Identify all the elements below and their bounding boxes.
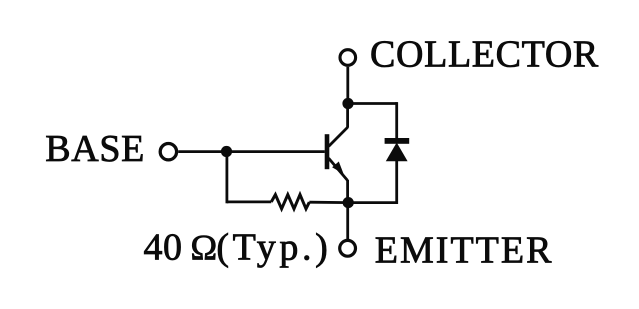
junction base node <box>221 146 232 157</box>
transistor Q1 <box>325 127 348 180</box>
wire resistor branch vertical <box>225 152 228 204</box>
wire collector terminal to node <box>346 67 349 104</box>
svg-text:40 Ω(Typ.): 40 Ω(Typ.) <box>144 227 332 269</box>
wire resistor branch horizontal <box>227 200 271 203</box>
junction collector node <box>342 98 353 109</box>
wire transistor emitter vertical <box>346 180 349 203</box>
wire emitter node to diode branch <box>348 201 397 204</box>
wire diode branch lower <box>395 160 398 204</box>
wire transistor collector vertical <box>346 104 349 128</box>
diode D1 <box>385 138 410 161</box>
wire collector node to diode branch <box>348 102 397 105</box>
terminal BASE <box>160 144 176 160</box>
terminal EMITTER <box>340 240 356 256</box>
svg-text:COLLECTOR: COLLECTOR <box>370 34 599 76</box>
wire diode branch upper <box>395 102 398 140</box>
junction emitter node <box>343 197 354 208</box>
svg-text:EMITTER: EMITTER <box>375 229 554 271</box>
wire resistor to emitter node <box>309 201 348 204</box>
svg-text:BASE: BASE <box>45 128 145 170</box>
resistor R1 <box>271 195 309 209</box>
terminal COLLECTOR <box>340 50 356 66</box>
wire emitter node to terminal <box>346 203 349 239</box>
wire base terminal to transistor <box>178 150 325 153</box>
